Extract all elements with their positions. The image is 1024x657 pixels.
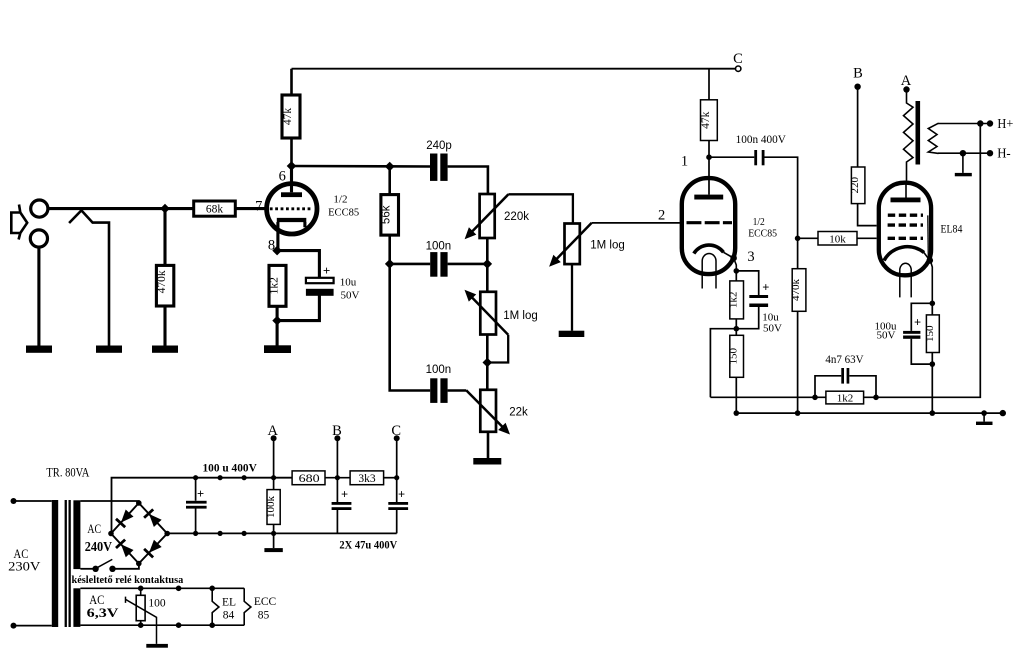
svg-text:1/2: 1/2 bbox=[753, 216, 765, 228]
diode D3 (lower left) bbox=[116, 540, 134, 558]
svg-text:ECC85: ECC85 bbox=[748, 228, 777, 240]
svg-text:470k: 470k bbox=[156, 270, 168, 293]
svg-text:2X 47u 400V: 2X 47u 400V bbox=[339, 538, 397, 552]
transformer core bbox=[65, 500, 67, 627]
diode D1 (upper left) bbox=[116, 509, 134, 527]
node junction below 150 bbox=[930, 361, 936, 367]
svg-text:47k: 47k bbox=[282, 108, 294, 126]
svg-text:3: 3 bbox=[747, 249, 754, 265]
output transformer primary winding bbox=[904, 90, 914, 181]
220k wiper arrow bbox=[468, 194, 508, 235]
V2 g3 internal connection bbox=[927, 215, 930, 258]
svg-text:100: 100 bbox=[148, 598, 166, 610]
svg-text:50V: 50V bbox=[763, 323, 782, 335]
svg-text:EL: EL bbox=[222, 597, 236, 609]
svg-text:6: 6 bbox=[279, 168, 286, 184]
node: anode junction pin6 bbox=[287, 161, 297, 171]
capacitor 100n (lower) plates bbox=[430, 378, 437, 403]
svg-text:85: 85 bbox=[258, 610, 270, 622]
svg-text:+: + bbox=[341, 488, 348, 502]
wire pin1 to coupling cap bbox=[709, 156, 754, 158]
primary lead bottom + terminal bbox=[14, 625, 52, 627]
svg-text:+: + bbox=[914, 316, 921, 330]
svg-text:EL84: EL84 bbox=[941, 224, 963, 236]
jack switching contact bbox=[69, 210, 109, 346]
svg-text:47k: 47k bbox=[700, 111, 712, 129]
wire V2 cathode down bbox=[931, 261, 933, 303]
svg-text:1k2: 1k2 bbox=[269, 277, 281, 295]
node junction V2 cathode bbox=[930, 301, 936, 307]
U1b cathode arc bbox=[694, 245, 724, 253]
U1b cathode pin dot bbox=[730, 255, 737, 262]
svg-text:100k: 100k bbox=[265, 496, 277, 519]
svg-text:6,3V: 6,3V bbox=[87, 605, 119, 620]
relay contact (open switch) bbox=[92, 566, 98, 572]
1M log volume wiper arrow bbox=[553, 223, 592, 263]
wire mid row left bbox=[390, 263, 431, 266]
wire 3k3 to C bbox=[384, 477, 397, 479]
capacitor 100u 400V (reservoir) bbox=[195, 478, 197, 534]
SECTION: output stage bbox=[710, 66, 1013, 426]
svg-text:220k: 220k bbox=[504, 211, 529, 223]
svg-text:150: 150 bbox=[924, 325, 936, 342]
node junction 56k top bbox=[385, 162, 395, 172]
svg-text:240p: 240p bbox=[426, 140, 452, 152]
svg-text:1: 1 bbox=[681, 153, 688, 169]
jack tip contact circle bbox=[31, 200, 48, 217]
humdinger wiper bbox=[126, 597, 157, 644]
heater load ECC85 (chevron) bbox=[244, 588, 251, 625]
ground (470k) bbox=[152, 346, 178, 353]
wire 220k wiper to volume pot bbox=[508, 194, 573, 223]
node junction rail ground bbox=[981, 410, 987, 416]
capacitor 10u plates bbox=[306, 278, 334, 283]
U1b grid (dashed) bbox=[687, 221, 733, 224]
ground (H-) bbox=[962, 153, 964, 173]
potentiometer 1M log (volume) body bbox=[565, 224, 580, 265]
svg-text:84: 84 bbox=[223, 610, 235, 622]
svg-text:470k: 470k bbox=[790, 279, 802, 302]
transformer primary winding bar bbox=[52, 500, 58, 627]
capacitor 100n (upper) plates bbox=[430, 252, 437, 277]
node junction treble pot bottom bbox=[483, 259, 493, 269]
wire 240p to 220k pot bbox=[448, 167, 488, 195]
transformer secondary 6.3V bar bbox=[73, 588, 80, 627]
tube V2 EL84 envelope bbox=[879, 183, 931, 276]
node junction EL84 grid bbox=[795, 236, 801, 242]
wire cathode pin3 down bbox=[734, 258, 737, 271]
bottom ground rail bbox=[736, 412, 1003, 414]
svg-text:240V: 240V bbox=[85, 539, 113, 554]
svg-text:+: + bbox=[197, 487, 204, 501]
node junction 4n7 left bbox=[812, 395, 818, 401]
V2 cathode arc bbox=[884, 247, 924, 261]
input jack plug symbol J1 bbox=[11, 205, 27, 240]
22k wiper arrow bbox=[466, 390, 506, 431]
ground (jack sleeve) bbox=[26, 346, 52, 353]
node junction 56k bottom bbox=[385, 259, 395, 269]
wire volume pot to ground bbox=[571, 264, 573, 331]
1M log bass wiper arrow bbox=[468, 293, 508, 335]
resistor 470k (grid leak) bbox=[156, 265, 173, 306]
ground (jack switch) bbox=[96, 346, 122, 353]
diode D2 (upper right) bbox=[144, 509, 162, 527]
V2 anode plate bbox=[891, 198, 921, 203]
wire 470k to ground bbox=[163, 306, 166, 346]
svg-text:50V: 50V bbox=[341, 289, 360, 301]
svg-text:10k: 10k bbox=[829, 234, 846, 246]
SECTION: tone stack bbox=[292, 140, 681, 465]
U1b heater bbox=[702, 254, 716, 289]
svg-text:100 u 400V: 100 u 400V bbox=[203, 460, 258, 474]
jack sleeve contact circle bbox=[30, 230, 47, 247]
svg-text:2: 2 bbox=[658, 207, 665, 223]
wire 240V top lead to bridge bbox=[80, 501, 138, 503]
wire 22k to ground bbox=[487, 432, 490, 458]
capacitor 10u 50V (cathode bypass U1b) bbox=[736, 271, 758, 329]
wire jack sleeve to ground bbox=[37, 247, 40, 346]
svg-text:230V: 230V bbox=[8, 559, 40, 573]
node junction 4n7 right bbox=[873, 395, 879, 401]
node junction H- ground bbox=[960, 150, 966, 156]
svg-text:680: 680 bbox=[299, 473, 320, 485]
V2 grids (3 dashed rows) bbox=[888, 213, 923, 216]
resistor 470k (grid leak EL84) bbox=[797, 238, 799, 268]
U1a anode wire bbox=[290, 166, 293, 192]
bridge corner dots bbox=[136, 500, 142, 506]
capacitor 4n7 63V (feedback) bbox=[815, 376, 876, 398]
node C terminal (open circle) bbox=[736, 66, 741, 71]
SECTION: power supply bbox=[8, 423, 408, 648]
node: cathode network bottom bbox=[272, 316, 282, 326]
capacitor 100n 400V (coupling) plates bbox=[754, 150, 757, 165]
SECTION: input stage bbox=[11, 51, 743, 353]
capacitor 100u 50V (cathode bypass EL84) bbox=[911, 303, 932, 364]
wire coupling cap to grid node bbox=[765, 157, 798, 238]
svg-text:1M log: 1M log bbox=[590, 239, 625, 251]
resistor 10k (grid stopper EL84) bbox=[798, 237, 818, 239]
svg-text:7: 7 bbox=[255, 199, 262, 215]
svg-text:3k3: 3k3 bbox=[358, 473, 376, 485]
wire relay to bridge bottom bbox=[113, 564, 139, 569]
svg-text:10u: 10u bbox=[340, 276, 357, 288]
resistor 47k (anode load U1a) bbox=[282, 95, 300, 138]
heater bottom rail bbox=[80, 624, 244, 626]
diode D4 (lower right) bbox=[144, 539, 162, 557]
wire 47k top to rail bbox=[290, 69, 293, 166]
node: input junction bbox=[160, 204, 170, 214]
node junction rail left bbox=[734, 410, 740, 416]
SECTION: second stage bbox=[658, 69, 877, 413]
heater top rail bbox=[80, 587, 244, 589]
resistor 1k2 (cathode U1a) bbox=[269, 265, 286, 306]
DC bottom rail bbox=[167, 532, 397, 534]
feedback rail bbox=[710, 396, 826, 398]
V2 cathode pin dot bbox=[927, 257, 934, 264]
svg-text:1/2: 1/2 bbox=[333, 193, 347, 205]
wire feedback from H+ down bbox=[864, 124, 981, 398]
wire 240V bottom lead to relay contact bbox=[80, 568, 95, 570]
wire lower row right bbox=[448, 389, 467, 392]
svg-text:150: 150 bbox=[728, 348, 740, 365]
ground (22k) bbox=[473, 458, 501, 465]
wire lower row left (from 56k junction down) bbox=[390, 264, 431, 391]
resistor 150 (U1b cathode chain) bbox=[735, 329, 737, 336]
terminal H+ bbox=[987, 120, 993, 126]
resistor 3k3 bbox=[350, 471, 384, 485]
wire input signal bbox=[48, 207, 194, 210]
svg-text:C: C bbox=[733, 51, 743, 67]
resistor 56k bbox=[388, 167, 391, 195]
transformer secondary 240V bar bbox=[73, 500, 80, 569]
svg-text:+: + bbox=[398, 488, 405, 502]
output transformer secondary winding bbox=[928, 123, 938, 153]
svg-text:B: B bbox=[853, 66, 863, 82]
wire 68k to pin 7 bbox=[235, 207, 264, 210]
ground (PSU) bbox=[273, 533, 275, 548]
resistor 220 (screen grid) bbox=[857, 87, 859, 167]
ground (U1a cathode) bbox=[264, 345, 291, 353]
svg-text:H+: H+ bbox=[997, 117, 1013, 132]
V2 heater bbox=[900, 263, 911, 297]
wire bridge plus riser to DC rail bbox=[111, 478, 292, 534]
wire to ground bbox=[276, 321, 279, 346]
svg-text:100n: 100n bbox=[426, 364, 452, 376]
U1b anode wire + plate bbox=[708, 157, 710, 194]
svg-text:1k2: 1k2 bbox=[837, 393, 854, 405]
capacitor 47u 400V (C node) bbox=[396, 478, 398, 534]
node junction below 1k2 bbox=[734, 326, 740, 332]
resistor 1k2 (cathode U1b) bbox=[735, 271, 737, 281]
terminal end of rail bbox=[1000, 410, 1006, 416]
wire 680 to B bbox=[325, 477, 350, 479]
wire bass wiper to bottom terminal bbox=[487, 335, 508, 363]
wire 1k2 bottom bbox=[276, 306, 279, 320]
svg-text:56k: 56k bbox=[381, 205, 393, 224]
node junction rail 470k bbox=[795, 410, 801, 416]
tube U1b 1/2 ECC85 envelope bbox=[682, 178, 735, 274]
wire secondary to H+ bbox=[938, 123, 990, 125]
svg-text:1k2: 1k2 bbox=[728, 292, 740, 309]
node junction bass pot bottom bbox=[483, 358, 493, 368]
U1a anode plate bbox=[281, 192, 302, 197]
resistor 150 (cathode EL84) bbox=[931, 303, 933, 315]
U1a cathode bbox=[277, 218, 307, 222]
svg-text:100n: 100n bbox=[426, 240, 452, 252]
svg-text:késleltető relé kontaktusa: késleltető relé kontaktusa bbox=[72, 574, 184, 586]
node junction H+ / feedback takeoff bbox=[977, 120, 983, 126]
potentiometer 220k (treble) body bbox=[480, 194, 495, 238]
potentiometer 22k body bbox=[486, 363, 489, 390]
resistor 68k (grid stopper) bbox=[194, 201, 236, 216]
svg-text:50V: 50V bbox=[877, 329, 896, 341]
wire volume wiper row to U1b grid (pin 2) bbox=[592, 222, 681, 224]
node junction pin 3 bbox=[734, 268, 740, 274]
svg-text:ECC85: ECC85 bbox=[328, 206, 360, 218]
svg-text:220: 220 bbox=[849, 177, 861, 194]
potentiometer 100 (humdinger) bbox=[140, 588, 142, 625]
U1a grid (dotted) bbox=[270, 207, 312, 210]
wire feedback stub bbox=[710, 329, 736, 398]
svg-text:H-: H- bbox=[997, 147, 1011, 162]
ground (volume pot) bbox=[559, 331, 585, 337]
svg-text:TR. 80VA: TR. 80VA bbox=[46, 466, 89, 480]
bridge rectifier diamond bbox=[111, 503, 167, 564]
DC top rail dots bbox=[193, 475, 198, 480]
heater rail dots bbox=[138, 586, 144, 592]
ground (humdinger) bbox=[146, 644, 168, 648]
primary lead top + terminal bbox=[14, 500, 52, 502]
resistor 680 bbox=[292, 471, 325, 485]
node junction pin 1 bbox=[706, 154, 712, 160]
capacitor 47u 400V (B node) bbox=[336, 478, 338, 534]
ground (main) bbox=[983, 413, 985, 422]
output transformer core bbox=[916, 101, 921, 165]
wire secondary to H- bbox=[938, 152, 990, 154]
resistor 100k (bleeder) bbox=[273, 478, 275, 490]
svg-text:+: + bbox=[762, 281, 769, 295]
svg-text:68k: 68k bbox=[206, 204, 224, 216]
node: cathode junction pin 8 bbox=[272, 246, 282, 256]
node junction rail EL84 cathode bbox=[930, 410, 936, 416]
tube U1a 1/2 ECC85 envelope bbox=[267, 184, 317, 234]
terminal H- bbox=[987, 150, 993, 156]
heater load EL84 (chevron) bbox=[212, 588, 219, 625]
svg-text:22k: 22k bbox=[509, 407, 528, 419]
svg-text:4n7 63V: 4n7 63V bbox=[825, 354, 864, 366]
svg-text:1M log: 1M log bbox=[503, 310, 538, 322]
capacitor 240p plates bbox=[430, 154, 437, 181]
resistor 47k (anode load U1b) bbox=[708, 69, 710, 100]
svg-text:ECC: ECC bbox=[254, 596, 277, 608]
top rail to node C bbox=[292, 68, 736, 70]
potentiometer 1M log (bass) body bbox=[486, 264, 489, 292]
wire mid row right bbox=[448, 263, 488, 266]
resistor 1k2 (feedback) bbox=[826, 391, 864, 404]
svg-text:+: + bbox=[323, 263, 330, 278]
capacitor 10u 50V (cathode bypass U1a) wires bbox=[277, 251, 319, 321]
svg-text:100n 400V: 100n 400V bbox=[736, 134, 787, 146]
wire to 470k bbox=[163, 209, 166, 266]
wire anode row bbox=[292, 165, 431, 168]
svg-text:AC: AC bbox=[87, 522, 101, 536]
